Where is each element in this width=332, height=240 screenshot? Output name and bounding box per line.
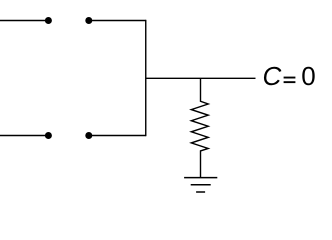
terminal dot top-right: [85, 17, 92, 24]
resistor: [191, 78, 208, 177]
terminal dot bottom-right: [85, 132, 92, 139]
terminal dot bottom-left: [45, 132, 52, 139]
wire middle node: [146, 77, 256, 79]
wire bottom-left: [0, 135, 48, 137]
terminal dot top-left: [45, 17, 52, 24]
wire top-left: [0, 20, 48, 22]
wire right vertical: [145, 20, 147, 136]
svg-text:0: 0: [301, 61, 315, 91]
wire bottom-right: [89, 135, 146, 137]
equals sign: [284, 77, 296, 84]
svg-text:C: C: [263, 61, 282, 91]
ground: [184, 178, 217, 192]
wire top-right: [89, 20, 146, 22]
